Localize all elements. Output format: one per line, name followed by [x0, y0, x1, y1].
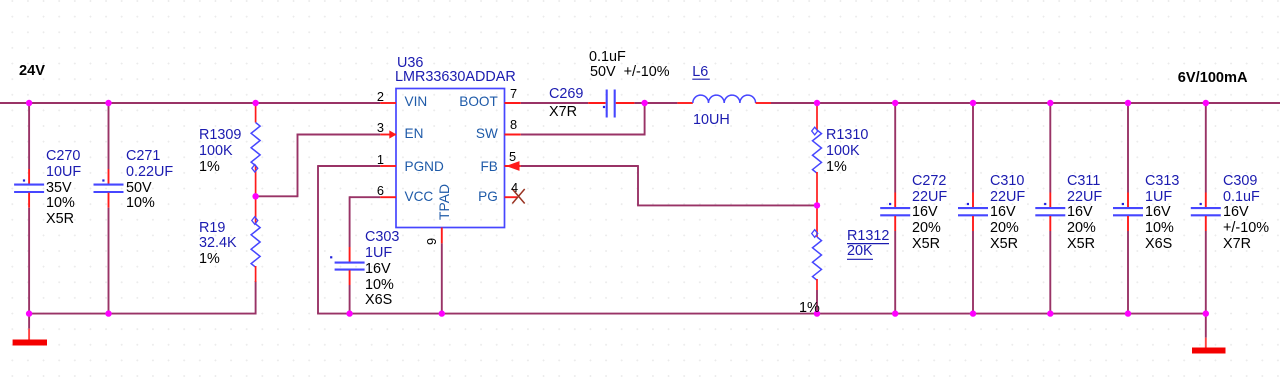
ground right: [1192, 314, 1226, 354]
capacitor C271: [94, 103, 124, 314]
pin number 3: [377, 122, 384, 135]
capacitor C271 labels: [126, 149, 160, 163]
pin number 1: [377, 154, 384, 167]
L6 label underline: [692, 78, 710, 80]
pin 4 PG stub: [505, 196, 518, 198]
resistor R19: [251, 196, 260, 282]
pin name PGND: [405, 160, 444, 174]
capacitor C313: [1113, 103, 1143, 314]
pin 6 VCC stub: [380, 196, 396, 198]
pin name VCC: [405, 190, 434, 204]
capacitor C272: [880, 103, 910, 314]
pin name PG: [478, 190, 498, 204]
pin number 9 (rotated): [426, 238, 439, 245]
node 6V/100mA label: [1178, 71, 1248, 86]
resistor R1312: [812, 205, 822, 313]
capacitor C310 labels: [990, 174, 1024, 188]
wire top rail SW/output: [634, 102, 1280, 104]
IC U36 labels: [397, 56, 423, 70]
inductor L6 labels: [692, 65, 708, 79]
pin name BOOT: [459, 95, 498, 109]
pin number 5: [509, 151, 516, 164]
pin number 2: [377, 91, 384, 104]
IC U36 box: [396, 89, 505, 228]
wire FB network: [521, 165, 817, 205]
wire PGND to bottom net: [317, 165, 1206, 314]
ground left: [13, 314, 47, 346]
pin 3 EN input arrow: [389, 130, 396, 138]
inductor L6: [677, 95, 771, 103]
pin number 7: [510, 88, 517, 101]
capacitor C309: [1191, 103, 1221, 314]
pin name VIN: [405, 95, 428, 109]
R1312 label underlines: [847, 243, 889, 245]
capacitor C309 labels: [1223, 174, 1257, 188]
pin 3 EN stub: [380, 134, 396, 136]
resistor R1310 labels: [826, 128, 868, 142]
pin 8 SW stub: [505, 134, 521, 136]
pin 5 FB input arrow: [506, 161, 520, 171]
pin 7 BOOT stub: [505, 102, 521, 104]
capacitor C269: [588, 90, 634, 118]
pin name EN: [405, 127, 424, 141]
pin name SW: [476, 127, 498, 141]
node 24V label: [19, 64, 45, 79]
resistor R19 labels: [199, 221, 225, 235]
resistor R1312 labels: [847, 229, 889, 243]
pin name TPAD (rotated): [438, 184, 452, 220]
capacitor C311: [1035, 103, 1065, 314]
resistor R1309: [251, 103, 260, 196]
capacitor C303 labels: [365, 230, 399, 244]
resistor R1310: [812, 103, 822, 205]
resistor R1309 labels: [199, 128, 241, 142]
capacitor C270 labels: [46, 149, 80, 163]
capacitor C269 labels: [589, 50, 626, 64]
capacitor C303: [330, 247, 365, 285]
wire SW pin to bootstrap junction: [521, 102, 646, 135]
wire top rail 24V: [0, 102, 380, 104]
wire VCC to C303: [350, 196, 381, 313]
pin name FB: [480, 160, 497, 174]
pin number 8: [510, 119, 517, 132]
pin 2 VIN stub: [380, 102, 396, 104]
pin 1 PGND stub: [380, 165, 396, 167]
pin 5 FB stub: [505, 165, 521, 167]
capacitor C270: [14, 103, 44, 314]
pin number 4: [511, 182, 518, 195]
capacitor C272 labels: [912, 174, 946, 188]
capacitor C311 labels: [1067, 174, 1100, 188]
wire BOOT to C269: [521, 102, 589, 104]
pin number 6: [377, 185, 384, 198]
pin 4 PG no-connect X: [512, 189, 524, 204]
wire TPAD to bottom net: [441, 243, 443, 313]
wire bottom left ground rail: [29, 281, 256, 315]
wire EN network: [256, 134, 381, 198]
capacitor C310: [958, 103, 988, 314]
capacitor C313 labels: [1145, 174, 1179, 188]
pin 9 TPAD stub: [441, 228, 443, 244]
